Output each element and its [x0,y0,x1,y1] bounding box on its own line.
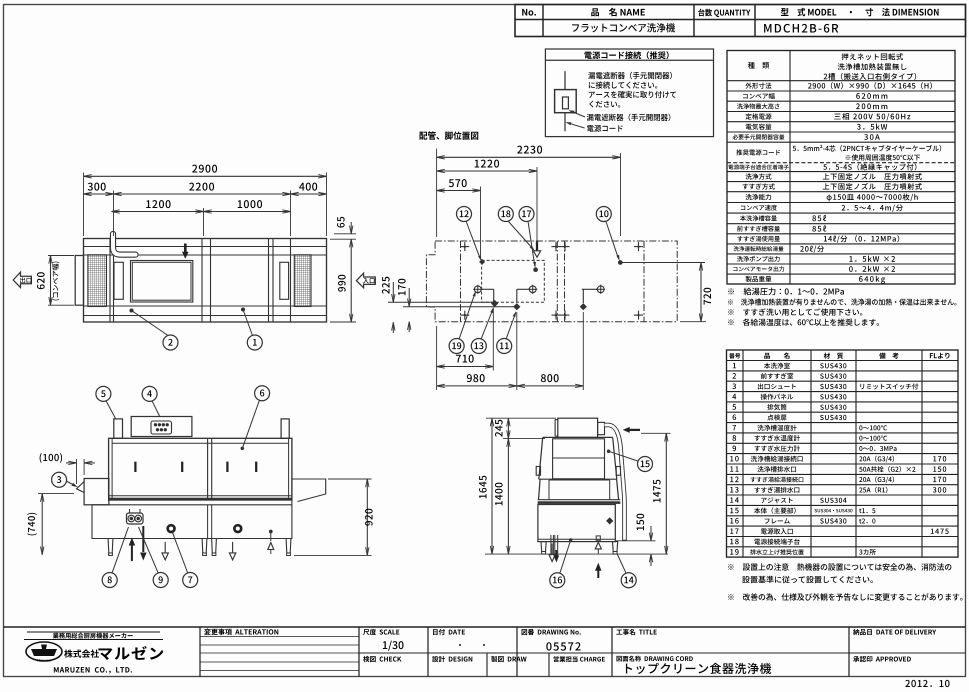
breaker symbol [555,90,577,113]
marker 13 drain [491,300,498,307]
dim 1220 [536,167,538,244]
spec rows [748,62,769,69]
footer title block [4,626,966,628]
plan conveyor rails [84,246,327,248]
left vestibule [84,479,109,505]
counter rim bold [538,501,621,504]
plan right belt hatch [294,255,311,307]
callout 6 [255,386,270,401]
power entry arrow [629,429,640,431]
plan slot right [280,262,289,299]
base box [92,500,292,539]
date stamp [905,680,949,687]
plan section dividers [109,239,111,323]
dim 150 [616,540,656,542]
piping inner chain lines [460,241,462,322]
dim 620 conveyor width [48,255,74,257]
callout 19 [449,339,464,354]
callout 1 [242,308,245,311]
side hooks [536,467,540,476]
callout 16 [550,573,565,588]
spec table [727,51,955,285]
floor line [485,553,668,555]
plan view body [84,239,327,323]
parts list table [727,350,959,557]
pressure gauge 7a [168,525,175,532]
power cord arrow [536,241,538,251]
dim 65 [334,233,356,235]
marker 17 terminal dot [534,268,538,272]
conveyor lines [109,495,292,497]
base box end [538,505,615,542]
marker drain right [580,303,587,310]
plan slot left [114,262,123,299]
leg mark [561,246,570,248]
entry IN arrow [356,273,375,288]
dim 245 [503,438,545,440]
callout 2 [130,309,133,312]
callout 10 [596,207,611,222]
callout 12 [457,207,472,222]
leg [286,539,291,554]
plan detergent pipe [113,234,136,255]
legs end view [541,542,546,552]
connection circle right [597,286,604,293]
marker 11 drain [513,303,520,310]
callout 15 [638,457,653,472]
leg [108,539,113,554]
maruzen logo block [27,631,160,633]
marker 10 dot [619,261,623,265]
piping view title [419,131,478,140]
line to 720 dim [620,262,705,264]
dim 170 [408,288,410,307]
mid section [539,479,541,500]
dim 720 [700,263,702,322]
exit chute [77,482,85,493]
plan tank opening left chamber [131,261,193,303]
header table [515,5,966,37]
drain box [481,288,494,290]
tank footprint dashed rect [482,260,545,302]
end view exhaust duct [558,418,598,437]
leg mark [552,246,561,248]
callout 3 [52,472,67,487]
hood sides [539,437,543,479]
callout 7 [183,573,198,588]
maruzen bird logo [26,642,62,661]
callout 18 [498,207,513,222]
marker 12 wash inlet [479,259,485,265]
air vent arrow [270,531,272,541]
drain pipes [550,535,552,556]
exhaust stack right [281,419,289,438]
piping footprint outline [426,241,677,322]
exit OUT arrow [13,272,31,288]
dim 1400 [507,439,509,554]
dim 2900 [83,173,85,237]
hood top [543,436,613,438]
bottom flow arrows [131,545,133,561]
parts rows [733,363,736,368]
dim 225 piping [392,282,394,302]
rinse inlet fitting [596,536,600,540]
drain valves 8 9 [127,513,144,524]
door handle ticks [134,462,136,472]
leg mark [460,246,469,248]
leg [212,539,217,554]
parts notes [728,563,951,570]
dim 300 2200 400 [113,191,115,237]
dim 920 [328,478,372,480]
spec notes [728,288,844,296]
dim 980 800 [516,312,518,390]
leg [202,539,207,554]
callout 14 [621,573,636,588]
dim 990 [330,321,356,323]
callout 5 [96,386,111,401]
pressure gauge 7b [234,525,241,532]
power conduit [605,425,625,540]
dim (100) [76,459,78,484]
connection 19 rinse inlet [474,286,481,293]
header row2 [572,23,675,32]
plan feed direction arrow [184,244,187,253]
power inlet diamond [606,517,613,524]
right in-table [292,479,326,502]
power cord note box [545,49,713,137]
dim (740) [38,493,74,495]
hood inner panel [553,439,605,479]
connection circle mid [529,286,536,293]
plan left belt hatch [88,255,107,307]
line rows left [388,301,494,303]
leg mark [634,246,643,248]
callout 8 [102,573,117,588]
callout 11 [497,339,512,354]
footer cells [363,629,399,635]
callout 4 [142,386,157,401]
callout 17 [519,207,534,222]
callout 13 [471,339,486,354]
breaker leader [571,111,586,117]
front elevation body [109,438,292,500]
dim 1645 [486,417,556,419]
dim 570 [480,187,482,258]
control panel [131,417,192,437]
cord leader [568,123,585,128]
tank band [538,499,621,501]
plan left out-table [75,256,83,306]
dim 710 [436,326,438,390]
callout 9 [153,573,168,588]
shoulder line [539,478,617,480]
dim 1200 1000 [203,208,205,236]
alteration cell rules [200,636,359,638]
exhaust stack left [114,419,123,438]
dim 2230 [436,149,438,238]
dim 1475 [641,432,671,434]
